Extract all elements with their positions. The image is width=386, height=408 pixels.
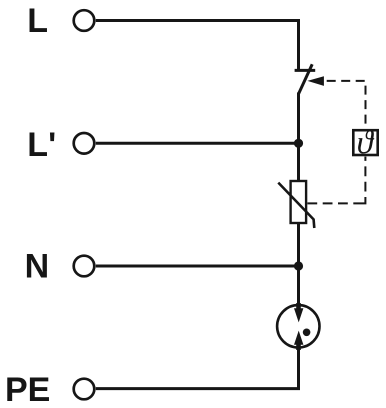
wire PE horizontal	[96, 387, 300, 390]
spark gap upper electrode arrow	[294, 303, 303, 322]
thermal trip arrow	[307, 76, 324, 86]
wire vertical from L corner down to disconnect contact	[297, 19, 300, 70]
disconnect fixed contact bar	[295, 69, 316, 72]
spark gap arrester circle	[277, 305, 319, 347]
svg-text:L': L'	[27, 126, 56, 164]
node L' junction dot	[294, 139, 303, 148]
node N junction dot	[294, 261, 303, 270]
gas-filled indicator dot	[303, 329, 311, 337]
wire vertical blade bottom through L' node to varistor	[297, 93, 300, 183]
wire N horizontal	[96, 265, 299, 268]
terminal circle N	[74, 256, 95, 277]
wire vertical varistor to N node to arrester	[297, 223, 300, 305]
dashed link horizontal to varistor	[307, 202, 362, 204]
dashed link theta box to varistor	[362, 157, 365, 204]
thermometer box U+03D1	[353, 125, 377, 161]
wire L horizontal to top-right corner	[96, 19, 300, 22]
svg-text:ϑ: ϑ	[357, 125, 375, 161]
wire vertical arrester to PE corner	[297, 348, 300, 390]
spark gap lower electrode arrow	[294, 331, 303, 350]
terminal circle PE	[74, 379, 95, 400]
terminal circle L'	[74, 133, 95, 154]
svg-text:N: N	[25, 248, 50, 286]
dashed link arrow to theta box	[327, 81, 366, 129]
svg-text:L: L	[27, 2, 48, 40]
wire L' horizontal	[96, 142, 299, 145]
terminal circle L	[74, 10, 95, 31]
disconnect switch blade	[299, 64, 313, 94]
varistor diagonal stroke with tail	[278, 183, 314, 228]
varistor body	[291, 181, 307, 223]
svg-text:PE: PE	[5, 371, 50, 408]
